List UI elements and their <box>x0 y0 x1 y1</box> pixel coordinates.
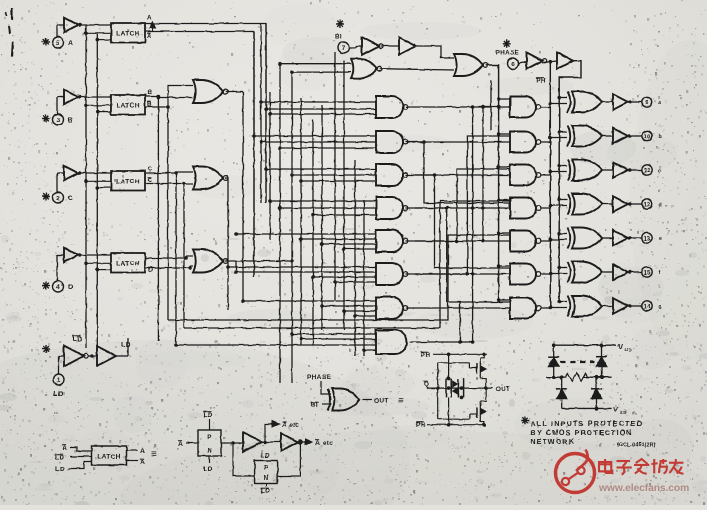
svg-text:PHASE: PHASE <box>307 374 331 381</box>
svg-text:P: P <box>264 465 269 472</box>
svg-text:92CL-0451(2R): 92CL-0451(2R) <box>617 443 656 449</box>
svg-text:PH: PH <box>416 422 425 429</box>
svg-text:V: V <box>614 407 619 414</box>
svg-text:A: A <box>178 441 183 448</box>
svg-text:PH: PH <box>421 352 430 359</box>
svg-text:etc: etc <box>289 422 299 429</box>
svg-text:A: A <box>140 448 145 455</box>
svg-text:OUT: OUT <box>496 386 510 393</box>
svg-text:LATCH: LATCH <box>116 30 140 37</box>
svg-text:g: g <box>659 304 662 310</box>
svg-text:ALL INPUTS PROTECTED: ALL INPUTS PROTECTED <box>530 419 643 428</box>
svg-text:P: P <box>207 434 212 441</box>
svg-text:12: 12 <box>643 201 651 208</box>
svg-text:OUT: OUT <box>374 398 389 405</box>
svg-text:B: B <box>68 117 73 124</box>
svg-text:www.elecfans.com: www.elecfans.com <box>598 483 689 494</box>
svg-text:LD: LD <box>55 455 65 462</box>
svg-text:13: 13 <box>643 235 651 242</box>
svg-text:b: b <box>659 134 662 140</box>
svg-text:3: 3 <box>56 117 60 124</box>
svg-text:A: A <box>315 440 320 447</box>
svg-text:≡: ≡ <box>151 449 157 460</box>
svg-text:C: C <box>68 195 73 202</box>
svg-text:6: 6 <box>511 61 515 68</box>
svg-text:d: d <box>659 202 662 208</box>
svg-text:e: e <box>659 236 662 242</box>
svg-text:LD: LD <box>53 389 63 398</box>
svg-text:LD: LD <box>121 340 131 349</box>
svg-text:A: A <box>62 445 67 452</box>
svg-text:2: 2 <box>56 195 60 202</box>
svg-text:D: D <box>68 284 73 291</box>
svg-text:C: C <box>148 166 153 173</box>
svg-text:DD: DD <box>625 347 633 353</box>
svg-text:etc: etc <box>323 440 333 447</box>
svg-text:LATCH: LATCH <box>116 178 140 185</box>
svg-text:A: A <box>147 15 152 22</box>
svg-text:c: c <box>659 168 662 174</box>
svg-text:≡: ≡ <box>398 396 404 407</box>
svg-text:A: A <box>68 40 73 47</box>
svg-text:Q: Q <box>424 381 429 388</box>
svg-text:14: 14 <box>643 303 651 310</box>
svg-text:LD: LD <box>55 466 65 473</box>
svg-text:PHASE: PHASE <box>496 50 519 57</box>
svg-text:NETWORK: NETWORK <box>530 437 575 446</box>
svg-text:LATCH: LATCH <box>116 102 140 109</box>
svg-text:LATCH: LATCH <box>97 454 120 461</box>
svg-text:B: B <box>148 90 153 97</box>
svg-text:LD: LD <box>203 412 213 419</box>
svg-text:7: 7 <box>342 45 346 52</box>
svg-text:f: f <box>659 270 661 276</box>
svg-text:10: 10 <box>643 133 651 140</box>
svg-text:SS: SS <box>620 410 627 416</box>
svg-text:1: 1 <box>57 377 61 384</box>
svg-text:BY CMOS PROTECTION: BY CMOS PROTECTION <box>530 428 632 437</box>
svg-text:A: A <box>140 459 145 466</box>
svg-text:5: 5 <box>56 40 60 47</box>
svg-text:LD: LD <box>203 466 213 473</box>
svg-text:9: 9 <box>645 99 649 106</box>
svg-text:N: N <box>207 448 212 455</box>
svg-text:11: 11 <box>644 167 651 174</box>
svg-text:V: V <box>618 344 623 351</box>
svg-text:A: A <box>282 422 287 429</box>
svg-text:BI: BI <box>311 402 318 409</box>
svg-text:4: 4 <box>56 284 60 291</box>
svg-text:a: a <box>659 100 662 106</box>
svg-text:LATCH: LATCH <box>116 260 140 267</box>
svg-text:A: A <box>147 33 152 40</box>
svg-text:LD: LD <box>261 453 270 460</box>
svg-text:LD: LD <box>261 488 270 495</box>
svg-text:N: N <box>264 475 269 482</box>
svg-text:PH: PH <box>536 78 545 85</box>
svg-text:15: 15 <box>643 269 651 276</box>
svg-text:BI: BI <box>335 34 342 41</box>
